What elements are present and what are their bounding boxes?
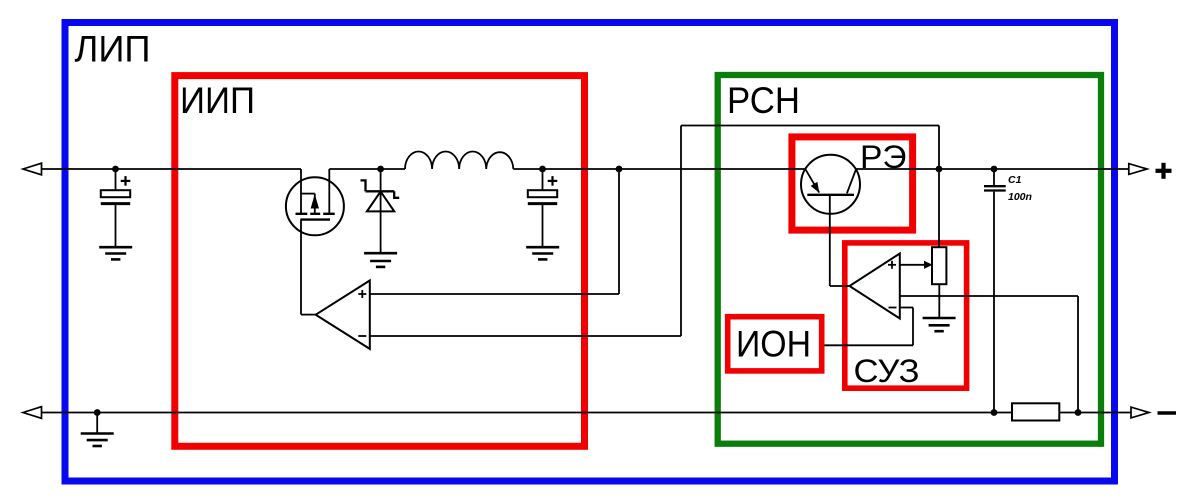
svg-text:100n: 100n <box>1008 191 1032 203</box>
svg-text:РСН: РСН <box>727 80 800 121</box>
svg-text:РЭ: РЭ <box>860 139 907 175</box>
svg-text:ЛИП: ЛИП <box>75 29 151 70</box>
svg-text:ИОН: ИОН <box>736 322 811 364</box>
svg-text:C1: C1 <box>1008 174 1022 186</box>
svg-text:ИИП: ИИП <box>180 80 255 121</box>
svg-text:СУЗ: СУЗ <box>854 353 920 389</box>
